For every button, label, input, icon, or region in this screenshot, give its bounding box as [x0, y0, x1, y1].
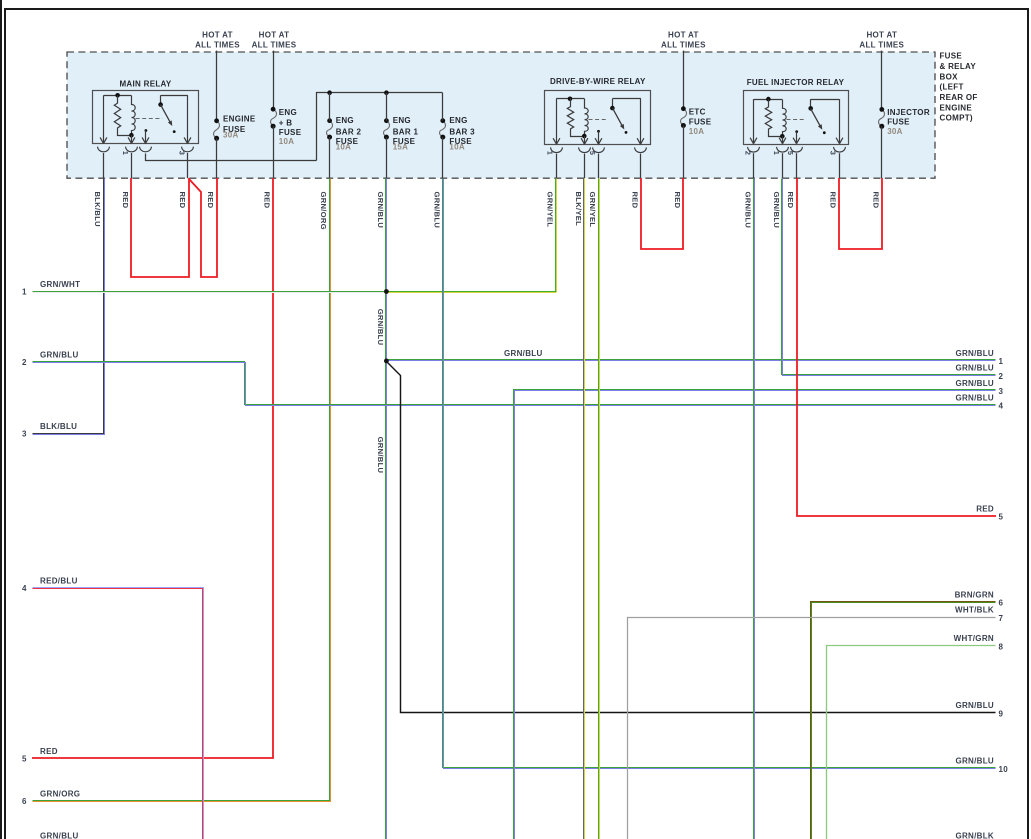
- svg-text:FUEL INJECTOR RELAY: FUEL INJECTOR RELAY: [747, 78, 845, 87]
- svg-text:BAR 1: BAR 1: [393, 128, 419, 137]
- svg-text:GRN/BLU: GRN/BLU: [376, 192, 385, 229]
- wire GRN/BLU: fuel injector relay pin 2 down off-page: [753, 179, 755, 839]
- svg-text:ENG: ENG: [336, 116, 354, 125]
- wire GRN/BLU: left connector pin 2 to right connector pin 4: [33, 362, 996, 405]
- svg-text:1: 1: [772, 151, 781, 155]
- svg-text:BAR 2: BAR 2: [336, 128, 362, 137]
- left connector pin 1 (GRN/WHT): [22, 280, 80, 297]
- left connector pin 2 (GRN/BLU): [22, 350, 79, 367]
- svg-text:ENG: ENG: [449, 116, 467, 125]
- right connector pin 1 (GRN/BLU): [955, 349, 1003, 366]
- svg-text:HOT AT: HOT AT: [202, 31, 233, 40]
- svg-text:10A: 10A: [279, 137, 295, 146]
- svg-text:HOT AT: HOT AT: [866, 31, 897, 40]
- svg-text:3: 3: [829, 151, 838, 155]
- wire RED: fuel injector relay loop to INJECTOR FUSE: [839, 178, 882, 249]
- svg-text:GRN/BLK: GRN/BLK: [955, 832, 994, 839]
- svg-text:ALL TIMES: ALL TIMES: [661, 40, 706, 49]
- svg-text:RED: RED: [786, 192, 795, 209]
- wire BLK: junction down and across to right connector pin 9: [388, 363, 996, 713]
- right connector pin 3 (GRN/BLU): [955, 379, 1003, 396]
- svg-text:ENGINE: ENGINE: [940, 103, 973, 112]
- left connector pin 5 (RED): [22, 747, 58, 764]
- svg-text:10A: 10A: [689, 127, 705, 136]
- fuse ENG +B FUSE 10A: label: [279, 108, 302, 146]
- svg-text:10A: 10A: [449, 143, 465, 152]
- wire GRN/BLU: ENG BAR 1 FUSE down off-page: [385, 179, 387, 839]
- svg-text:ENGINE: ENGINE: [223, 115, 256, 124]
- fuse INJECTOR FUSE 30A: symbol: [879, 107, 885, 129]
- wire GRN/BLU: right connector pin 3 down off-page: [514, 390, 996, 839]
- wire GRN/BLU: ENG BAR 3 FUSE to right connector pin 10: [443, 179, 996, 768]
- svg-text:GRN/BLU: GRN/BLU: [376, 437, 385, 474]
- svg-text:COMPT): COMPT): [940, 114, 973, 123]
- svg-text:30A: 30A: [223, 131, 239, 140]
- fuse INJECTOR FUSE 30A: label: [887, 108, 930, 136]
- svg-text:5: 5: [22, 754, 27, 763]
- relay: FUEL INJECTOR RELAY: [744, 78, 849, 145]
- svg-text:6: 6: [999, 599, 1004, 608]
- svg-text:10: 10: [999, 765, 1009, 774]
- svg-text:4: 4: [22, 584, 27, 593]
- svg-text:1: 1: [999, 357, 1004, 366]
- FUEL INJECTOR RELAY contact (switch): [787, 99, 840, 144]
- svg-text:GRN/YEL: GRN/YEL: [588, 192, 597, 228]
- svg-text:HOT AT: HOT AT: [259, 31, 290, 40]
- svg-text:ENG: ENG: [279, 108, 297, 117]
- fuse & relay box (dashed, light blue): [67, 52, 935, 178]
- wire: ENG BAR 3 FUSE output (in box): [442, 137, 444, 178]
- right connector pin 7 (WHT/BLK): [955, 606, 1003, 623]
- svg-text:RED: RED: [976, 504, 994, 513]
- svg-text:+ B: + B: [279, 119, 293, 128]
- fuse ENG BAR 1 FUSE 15A: label: [393, 116, 419, 152]
- wire: fuel injector relay pin wires inside dashed box: [754, 153, 840, 178]
- wire: bus drop to ENG BAR 2 fuse: [329, 93, 331, 121]
- wire: main relay pin wires inside dashed box: [104, 153, 188, 178]
- right connector pin 9 (GRN/BLU): [955, 701, 1003, 718]
- svg-text:ETC: ETC: [689, 108, 706, 117]
- fuse ENGINE FUSE 30A: symbol: [214, 118, 220, 140]
- wire: bus drop to ENG BAR 1 fuse: [386, 93, 388, 121]
- svg-text:GRN/BLU: GRN/BLU: [772, 192, 781, 229]
- svg-text:GRN/BLU: GRN/BLU: [955, 701, 994, 710]
- svg-text:RED: RED: [263, 192, 272, 209]
- wire RED: ENG +B FUSE to left connector pin 5: [32, 178, 273, 758]
- svg-text:2: 2: [743, 151, 752, 155]
- svg-text:3: 3: [999, 387, 1004, 396]
- left connector pin 6 (GRN/ORG): [22, 789, 80, 806]
- svg-text:(LEFT: (LEFT: [940, 83, 964, 92]
- wire: INJECTOR FUSE output (in box): [881, 126, 883, 178]
- svg-text:GRN/BLU: GRN/BLU: [955, 393, 994, 402]
- MAIN RELAY pin arrows and connectors: [98, 137, 194, 151]
- svg-text:GRN/BLU: GRN/BLU: [40, 350, 79, 359]
- FUEL INJECTOR RELAY pin arrows and connectors: [748, 138, 846, 152]
- svg-text:9: 9: [999, 709, 1004, 718]
- svg-text:BAR 3: BAR 3: [449, 128, 475, 137]
- fuse ENG +B FUSE 10A: symbol: [271, 107, 277, 129]
- svg-text:WHT/BLK: WHT/BLK: [955, 606, 994, 615]
- wire: ETC FUSE output (in box): [683, 126, 685, 179]
- wire WHT/GRN: right connector pin 8 down off-page: [827, 646, 996, 839]
- svg-text:RED: RED: [829, 192, 838, 209]
- svg-text:MAIN RELAY: MAIN RELAY: [119, 79, 171, 88]
- svg-text:RED: RED: [630, 192, 639, 209]
- HOT AT ALL TIMES label (ENGINE FUSE): [195, 31, 240, 50]
- svg-text:15A: 15A: [393, 143, 409, 152]
- wire: battery feed to ENGINE FUSE: [216, 51, 218, 121]
- svg-text:DRIVE-BY-WIRE RELAY: DRIVE-BY-WIRE RELAY: [550, 77, 646, 86]
- wire: main relay pin 2 stub to fuse bus riser: [146, 154, 317, 161]
- svg-text:WHT/GRN: WHT/GRN: [954, 634, 994, 643]
- svg-text:5: 5: [999, 513, 1004, 522]
- HOT AT ALL TIMES label (ENG +B FUSE): [252, 31, 297, 50]
- left connector pin 4 (RED/BLU): [22, 577, 78, 594]
- svg-text:RED: RED: [40, 747, 58, 756]
- wire: ENG BAR 1 FUSE output (in box): [386, 137, 388, 178]
- fuse ETC FUSE 10A: label: [689, 108, 712, 136]
- right connector pin 8 (WHT/GRN): [954, 634, 1004, 651]
- wire RED: main relay pin 1 loop to pin 3: [131, 178, 189, 277]
- node: GRN/WHT to GRN/BLU junction (line 1): [384, 289, 389, 294]
- svg-text:BRN/GRN: BRN/GRN: [955, 590, 994, 599]
- svg-text:30A: 30A: [887, 127, 903, 136]
- wire BLK/BLU: main relay pin to left connector pin 3: [33, 179, 104, 434]
- fuse ENGINE FUSE 30A: label: [223, 115, 256, 140]
- svg-text:GRN/BLU: GRN/BLU: [955, 364, 994, 373]
- DRIVE-BY-WIRE RELAY pin numbers: [546, 151, 597, 155]
- svg-text:BLK/BLU: BLK/BLU: [40, 422, 77, 431]
- svg-text:1: 1: [22, 288, 27, 297]
- DRIVE-BY-WIRE RELAY contact (switch): [589, 99, 641, 145]
- svg-text:GRN/WHT: GRN/WHT: [40, 280, 80, 289]
- svg-text:RED: RED: [673, 192, 682, 209]
- wire GRN/BLU: fuel injector relay pin 1 to right connector pin 2: [782, 179, 996, 375]
- svg-text:1: 1: [121, 151, 130, 155]
- right connector pin 6 (BRN/GRN): [955, 590, 1004, 607]
- wire: ENG BAR 2 FUSE output (in box): [329, 137, 331, 178]
- svg-text:GRN/BLU: GRN/BLU: [40, 832, 79, 839]
- page border (outer strip): [0, 0, 2, 839]
- HOT AT ALL TIMES label (ETC FUSE): [661, 31, 706, 50]
- svg-text:FUSE: FUSE: [279, 128, 302, 137]
- wire WHT/BLK: right connector pin 7 down off-page: [628, 618, 996, 839]
- fuse ENG BAR 1 FUSE 15A: symbol: [384, 118, 390, 139]
- svg-text:GRN/YEL: GRN/YEL: [546, 192, 555, 228]
- wire BRN/GRN: right connector pin 6 down off-page: [811, 602, 996, 839]
- relay: DRIVE-BY-WIRE RELAY: [545, 77, 651, 145]
- svg-text:3: 3: [22, 430, 27, 439]
- HOT AT ALL TIMES label (INJECTOR FUSE): [859, 31, 904, 50]
- svg-text:8: 8: [999, 642, 1004, 651]
- svg-text:INJECTOR: INJECTOR: [887, 108, 930, 117]
- svg-text:RED: RED: [871, 192, 880, 209]
- svg-text:RED: RED: [206, 192, 215, 209]
- wire GRN/YEL: junction to drive-by-wire relay pin 1: [387, 291, 557, 293]
- right connector pin 2 (GRN/BLU): [955, 364, 1003, 381]
- svg-text:HOT AT: HOT AT: [668, 31, 699, 40]
- svg-text:GRN/BLU: GRN/BLU: [432, 192, 441, 229]
- svg-text:6: 6: [22, 797, 27, 806]
- wire RED: drive-by-wire relay loop to ETC FUSE: [641, 178, 683, 249]
- wire RED/BLU: left connector pin 4 down off-page: [33, 588, 204, 839]
- wire GRN/BLU: junction to right connector pin 1: [387, 359, 996, 361]
- svg-text:ALL TIMES: ALL TIMES: [252, 40, 297, 49]
- svg-text:ALL TIMES: ALL TIMES: [859, 40, 904, 49]
- svg-text:4: 4: [999, 402, 1004, 411]
- wire GRN/WHT: left connector pin 1 to junction: [33, 291, 387, 293]
- svg-text:BOX: BOX: [940, 72, 959, 81]
- svg-text:5: 5: [786, 151, 795, 155]
- fuse ETC FUSE 10A: symbol: [681, 106, 687, 128]
- svg-text:FUSE: FUSE: [940, 52, 963, 61]
- svg-text:RED/BLU: RED/BLU: [40, 577, 78, 586]
- wire: battery feed to ENG +B FUSE: [273, 51, 275, 110]
- svg-text:BLK/BLU: BLK/BLU: [93, 192, 102, 228]
- left connector pin 3 (BLK/BLU): [22, 422, 77, 439]
- node: bus to ENG BAR 1 fuse: [384, 90, 389, 95]
- wire RED: fuel injector relay pin 5 to right connector pin 5: [797, 178, 996, 516]
- wire: ENGINE FUSE output (in box): [216, 138, 218, 178]
- svg-text:FUSE: FUSE: [887, 118, 910, 127]
- FUEL INJECTOR RELAY coil branch: [754, 97, 787, 144]
- wire: bus drop to ENG BAR 3 fuse: [442, 93, 444, 121]
- wire: fuse bus riser and top bus: [317, 93, 443, 161]
- wire: ENG +B FUSE output (in box): [273, 126, 275, 178]
- wire BLK/YEL: drive-by-wire relay pin down off-page: [583, 179, 585, 839]
- wire GRN/YEL: drive-by-wire relay pin 5 down off-page: [598, 179, 600, 839]
- fuse ENG BAR 3 FUSE 10A: symbol: [440, 118, 446, 139]
- svg-text:GRN/BLU: GRN/BLU: [955, 379, 994, 388]
- fuse ENG BAR 2 FUSE 10A: symbol: [327, 118, 333, 139]
- svg-text:RED: RED: [178, 192, 187, 209]
- MAIN RELAY coil branch: [104, 93, 136, 143]
- node: bus to ENG BAR 2 fuse: [327, 90, 332, 95]
- svg-text:BLK/YEL: BLK/YEL: [574, 192, 583, 227]
- wire RED: main relay pin 3 jog to ENGINE FUSE: [189, 178, 217, 277]
- svg-text:ENG: ENG: [393, 116, 411, 125]
- svg-text:1: 1: [546, 151, 555, 155]
- svg-text:GRN/BLU: GRN/BLU: [955, 349, 994, 358]
- wire: drive-by-wire relay pin wires inside dashed box: [557, 154, 641, 179]
- right connector pin 4 (GRN/BLU): [955, 393, 1003, 410]
- svg-text:GRN/BLU: GRN/BLU: [955, 757, 994, 766]
- svg-text:GRN/BLU: GRN/BLU: [743, 192, 752, 229]
- svg-text:REAR OF: REAR OF: [940, 93, 978, 102]
- right connector pin 10 (GRN/BLU): [955, 757, 1008, 774]
- fuse ENG BAR 3 FUSE 10A: label: [449, 116, 475, 152]
- svg-text:RED: RED: [121, 192, 130, 209]
- wire: battery feed to ETC FUSE: [683, 51, 685, 109]
- svg-text:& RELAY: & RELAY: [940, 62, 977, 71]
- svg-text:5: 5: [588, 151, 597, 155]
- FUEL INJECTOR RELAY pin numbers: [743, 151, 837, 155]
- fuse ENG BAR 2 FUSE 10A: label: [336, 116, 362, 152]
- svg-text:GRN/BLU: GRN/BLU: [376, 309, 385, 346]
- relay: MAIN RELAY: [93, 79, 199, 143]
- svg-text:7: 7: [999, 614, 1004, 623]
- svg-text:ALL TIMES: ALL TIMES: [195, 40, 240, 49]
- DRIVE-BY-WIRE RELAY pin arrows and connectors: [551, 138, 647, 152]
- wire GRN/ORG: ENG BAR 2 FUSE to left connector pin 6: [33, 179, 330, 801]
- DRIVE-BY-WIRE RELAY coil branch: [556, 97, 588, 145]
- MAIN RELAY contact (switch): [136, 95, 188, 143]
- right connector pin 5 (RED): [976, 504, 1003, 521]
- fuse & relay box caption: [940, 52, 978, 123]
- wire: battery feed to INJECTOR FUSE: [881, 51, 883, 110]
- svg-text:2: 2: [999, 372, 1004, 381]
- svg-text:GRN/ORG: GRN/ORG: [319, 192, 328, 230]
- svg-text:10A: 10A: [336, 143, 352, 152]
- MAIN RELAY pin numbers: [121, 151, 186, 155]
- node: GRN/BLU junction (line 2): [384, 359, 389, 364]
- svg-text:2: 2: [22, 358, 27, 367]
- svg-text:GRN/ORG: GRN/ORG: [40, 789, 80, 798]
- svg-text:3: 3: [177, 151, 186, 155]
- svg-text:FUSE: FUSE: [689, 117, 712, 126]
- svg-text:GRN/BLU: GRN/BLU: [504, 349, 543, 358]
